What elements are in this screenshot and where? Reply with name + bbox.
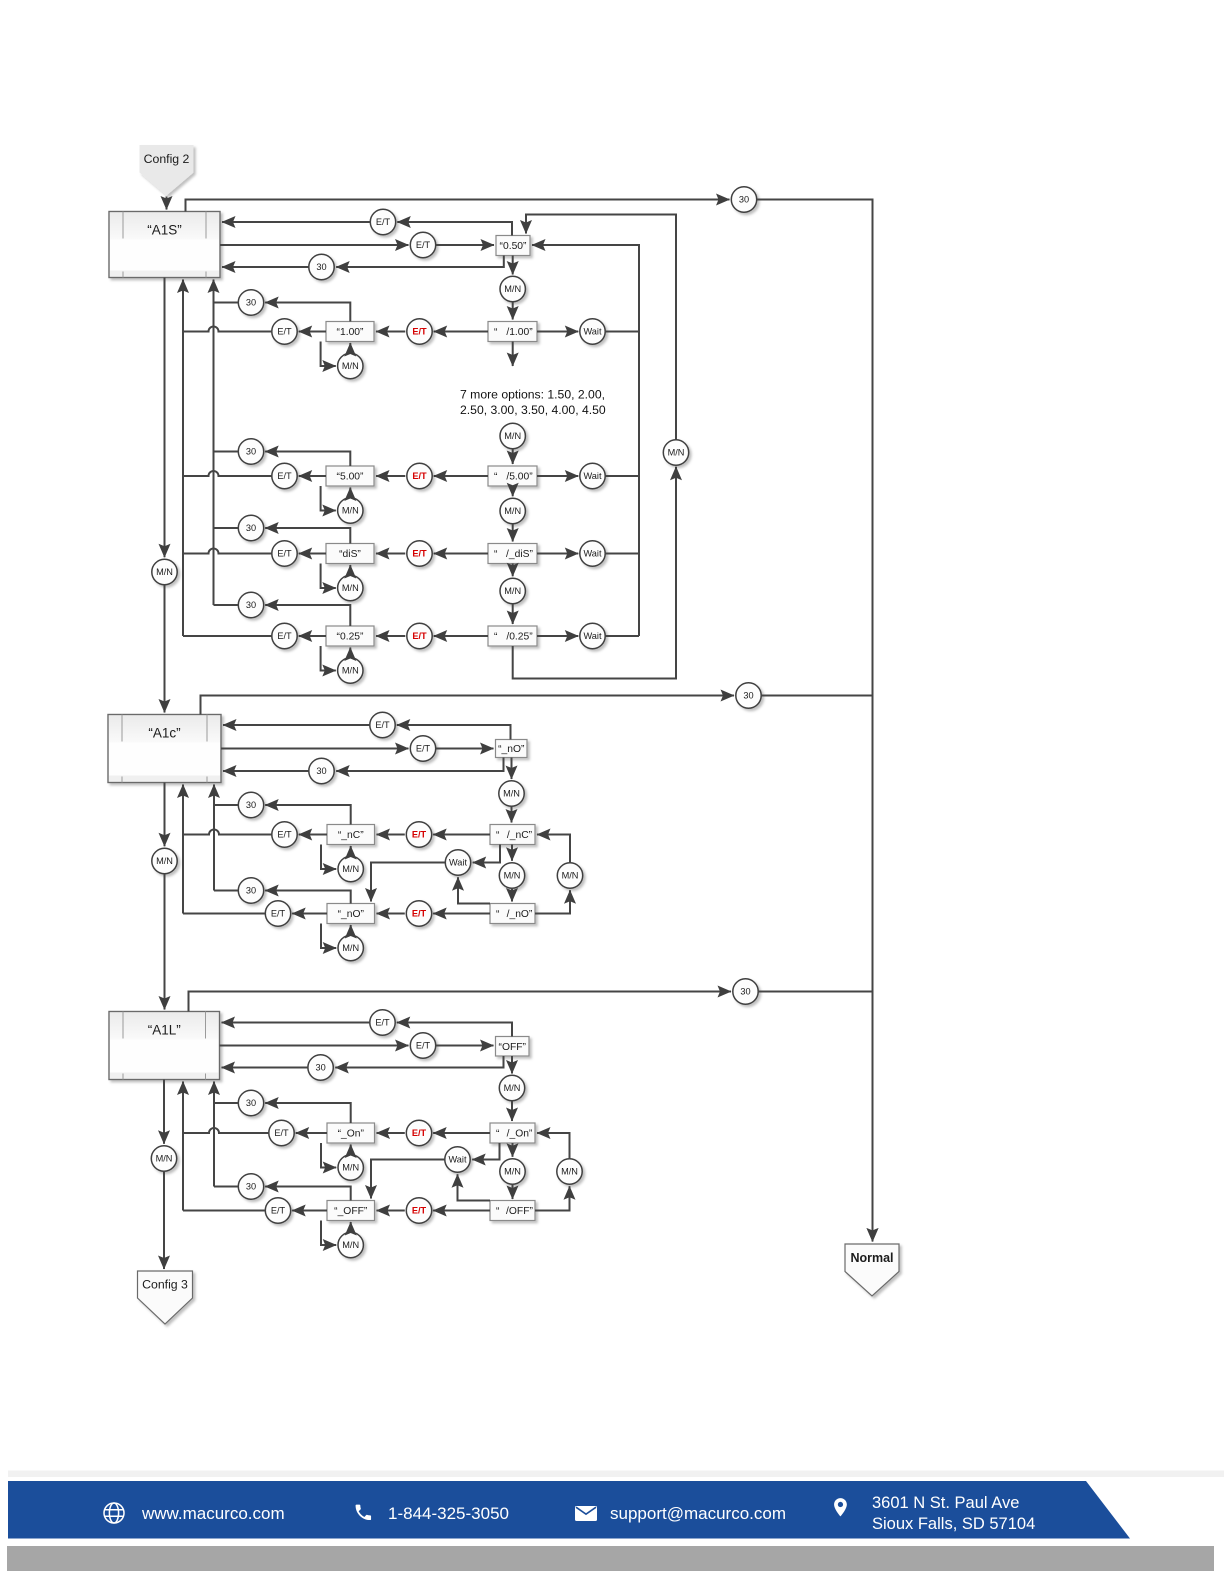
svg-text:30: 30 xyxy=(246,447,256,457)
svg-text:/1.00”: /1.00” xyxy=(506,327,533,338)
wire "1.00" top to 30 xyxy=(265,303,350,322)
circle 30 top xyxy=(731,187,756,212)
circle M/N loop _nC xyxy=(338,856,363,881)
wire "_OFF" loop down xyxy=(321,1221,336,1246)
circle M/N loop 5.00 xyxy=(338,498,363,523)
circle Wait A1c xyxy=(445,850,470,875)
wire " /_On" to red E/T xyxy=(433,1132,490,1134)
wire left M/N down to Config 3 xyxy=(163,1171,165,1269)
circle E/T row2 A1S xyxy=(410,232,435,257)
wire M/N loop into "_On" xyxy=(350,1145,352,1155)
circle 30 _OFF xyxy=(238,1174,263,1199)
wire M/N into " /_diS" xyxy=(512,524,514,542)
svg-text:/5.00”: /5.00” xyxy=(506,472,533,483)
svg-text:E/T: E/T xyxy=(412,830,427,840)
state box "OFF" xyxy=(496,1037,530,1057)
wire "1.00" to E/T xyxy=(299,331,326,333)
svg-text:E/T: E/T xyxy=(412,327,427,337)
circle E/T row1 A1c xyxy=(370,712,395,737)
svg-text:Normal: Normal xyxy=(850,1251,893,1265)
svg-text:E/T: E/T xyxy=(375,720,390,730)
wire " /OFF" top to Wait bottom xyxy=(458,1174,491,1200)
icon globe xyxy=(104,1503,124,1523)
svg-text:30: 30 xyxy=(246,523,256,533)
wire "_OFF" top to 30 xyxy=(265,1187,351,1201)
circle 30 return A1c header xyxy=(309,758,334,783)
wire 30 _OFF to bus xyxy=(214,1186,238,1188)
wire M/N into " /1.00" xyxy=(512,302,514,320)
circle E/T _On xyxy=(269,1120,294,1145)
wire " /0.25" to Wait xyxy=(537,635,578,637)
svg-text:E/T: E/T xyxy=(375,1018,390,1028)
wire M/N loop into "5.00" xyxy=(349,488,351,498)
circle M/N below 0.50 xyxy=(500,276,525,301)
svg-text:“1.00”: “1.00” xyxy=(337,327,364,338)
svg-text:“_nC”: “_nC” xyxy=(338,830,364,841)
svg-text:/_On”: /_On” xyxy=(507,1129,533,1140)
wire red E/T into "0.25" xyxy=(376,635,405,637)
svg-text:M/N: M/N xyxy=(342,506,359,516)
circle E/T red _diS xyxy=(407,541,432,566)
wire "0.50" top to E/T to A1S xyxy=(397,222,512,236)
svg-text:30: 30 xyxy=(315,1063,325,1073)
wire "_nO" to E/T xyxy=(292,913,327,915)
svg-text:30: 30 xyxy=(246,1182,256,1192)
circle E/T row1 A1L xyxy=(370,1010,395,1035)
wire Wait _diS to wait-bus xyxy=(605,553,639,555)
circle E/T diS xyxy=(272,541,297,566)
state box A1L xyxy=(109,1012,220,1080)
svg-text:E/T: E/T xyxy=(274,1128,289,1138)
circle M/N right A1L xyxy=(557,1159,582,1184)
circle E/T red _nO A1c xyxy=(406,901,431,926)
svg-text:Sioux Falls, SD 57104: Sioux Falls, SD 57104 xyxy=(872,1515,1035,1533)
wire wait bus into "0.50" right xyxy=(532,245,639,636)
wire "_nO" loop down xyxy=(321,924,336,949)
wire "0.50" to M/N xyxy=(512,256,514,275)
wire "OFF" bottom-left to 30 row xyxy=(335,1056,503,1068)
svg-text:/_nC”: /_nC” xyxy=(507,830,533,841)
state box "1.00" xyxy=(326,322,374,342)
svg-text:E/T: E/T xyxy=(412,1128,427,1138)
icon map pin xyxy=(834,1498,847,1516)
wire 30 to right bus down to Normal xyxy=(757,200,873,1242)
circle 30 diS xyxy=(238,515,263,540)
wire " /1.00" down arrow xyxy=(512,342,514,367)
svg-text:“5.00”: “5.00” xyxy=(337,472,364,483)
wire M/N loop into "_nO" xyxy=(350,925,352,935)
circle M/N loop diS xyxy=(338,575,363,600)
wire 30 bus up into A1c xyxy=(213,785,215,891)
svg-text:Wait: Wait xyxy=(583,631,601,641)
svg-text:E/T: E/T xyxy=(412,631,427,641)
wire "OFF" to M/N xyxy=(511,1056,513,1074)
circle 30 _nO xyxy=(238,878,263,903)
svg-text:M/N: M/N xyxy=(504,506,521,516)
wire "1.00" loop down xyxy=(321,342,336,367)
svg-text:2.50, 3.00, 3.50, 4.00, 4.50: 2.50, 3.00, 3.50, 4.00, 4.50 xyxy=(460,403,606,417)
svg-text:“0.25”: “0.25” xyxy=(337,632,364,643)
wire red E/T into "_nO" xyxy=(377,913,405,915)
svg-text:Wait: Wait xyxy=(583,327,601,337)
wire "_nO" bottom-left to 30 row xyxy=(336,758,503,772)
circle E/T 5.00 xyxy=(272,463,297,488)
wire " /_nO" top to Wait bottom xyxy=(458,877,490,903)
state box "5.00" xyxy=(326,466,374,486)
circle M/N chain above /0.25 xyxy=(500,578,525,603)
circle E/T red 5.00 xyxy=(407,463,432,488)
svg-text:“: “ xyxy=(496,830,500,841)
svg-text:3601 N St. Paul Ave: 3601 N St. Paul Ave xyxy=(872,1494,1019,1512)
circle Wait 0.25 xyxy=(580,623,605,648)
svg-text:Config 2: Config 2 xyxy=(144,152,190,166)
circle M/N below OFF xyxy=(499,1075,524,1100)
svg-text:E/T: E/T xyxy=(416,744,431,754)
wire E/T bus up into A1c xyxy=(182,785,184,914)
wire "_nO" to M/N xyxy=(511,758,513,780)
svg-text:M/N: M/N xyxy=(342,864,359,874)
wire "_nO" top to E/T to A1c xyxy=(397,725,511,740)
wire "0.25" to E/T xyxy=(299,635,326,637)
wire 30 header into A1L right xyxy=(222,1067,308,1069)
state box A1S xyxy=(109,212,220,278)
display box " _nC" xyxy=(490,825,535,845)
wire "5.00" top to 30 xyxy=(265,452,350,467)
svg-text:E/T: E/T xyxy=(412,1206,427,1216)
icon mail xyxy=(575,1506,597,1521)
wire E/T row1 into A1c right xyxy=(223,724,370,726)
svg-text:“: “ xyxy=(494,472,498,483)
svg-text:M/N: M/N xyxy=(156,567,173,577)
circle E/T row2 A1c xyxy=(410,736,435,761)
svg-text:M/N: M/N xyxy=(342,583,359,593)
wire Wait to "_nO" top xyxy=(371,863,445,902)
svg-text:30: 30 xyxy=(246,600,256,610)
wire M/N loop into "_OFF" xyxy=(350,1222,352,1232)
svg-text:M/N: M/N xyxy=(668,448,685,458)
circle Wait A1L xyxy=(445,1147,470,1172)
state box "diS" xyxy=(326,544,374,564)
svg-text:E/T: E/T xyxy=(277,471,292,481)
svg-text:“OFF”: “OFF” xyxy=(499,1042,527,1053)
wire right M/N into " /_nC" xyxy=(537,835,570,863)
circle M/N left A1S xyxy=(152,559,177,584)
wire " /_nC" to red E/T xyxy=(433,834,490,836)
svg-text:M/N: M/N xyxy=(562,871,579,881)
wire red E/T into "diS" xyxy=(376,553,405,555)
svg-text:E/T: E/T xyxy=(412,909,427,919)
svg-text:“diS”: “diS” xyxy=(339,549,361,560)
wire " /1.00" to Wait xyxy=(537,331,578,333)
display box " _diS" xyxy=(488,544,537,564)
wire left M/N down to A1L xyxy=(164,874,166,1010)
state box "0.50" xyxy=(496,236,530,256)
footer gray bar xyxy=(7,1546,1214,1571)
wire A1S right to E/T row2 xyxy=(220,244,409,246)
wire " /0.25" big loop to right M/N xyxy=(513,467,676,679)
svg-text:Config 3: Config 3 xyxy=(142,1278,188,1292)
wire left M/N down to A1c xyxy=(164,585,166,713)
wire "5.00" to E/T xyxy=(299,475,326,477)
wire A1S bottom to left M/N xyxy=(164,278,166,558)
wire A1L bottom to left M/N xyxy=(163,1080,165,1144)
wire 30 _nC to bus xyxy=(214,804,238,806)
wire red E/T into "_OFF" xyxy=(377,1210,405,1212)
circle E/T red 1.00 xyxy=(407,319,432,344)
wire " /_nO" right to M/N bus xyxy=(535,890,570,913)
svg-text:M/N: M/N xyxy=(342,666,359,676)
svg-text:“_OFF”: “_OFF” xyxy=(334,1206,368,1217)
circle M/N right A1c xyxy=(557,863,582,888)
svg-text:“: “ xyxy=(496,1129,500,1140)
wire E/T diS to return bus xyxy=(183,549,272,554)
icon phone xyxy=(356,1505,371,1520)
state box "_On" xyxy=(327,1123,375,1143)
svg-text:M/N: M/N xyxy=(156,856,173,866)
wire " /_diS" to M/N chain xyxy=(512,564,514,577)
circle Wait 5.00 xyxy=(580,463,605,488)
svg-text:M/N: M/N xyxy=(342,1163,359,1173)
wire E/T row1 into A1S right xyxy=(222,221,370,223)
wire "0.25" loop down xyxy=(321,646,336,671)
wire 30 header into A1c right xyxy=(223,770,309,772)
wire E/T _OFF to return bus xyxy=(183,1210,265,1212)
svg-text:30: 30 xyxy=(316,262,326,272)
circle M/N chain above /5.00 xyxy=(500,423,525,448)
wire E/T row2 into "_nO" left xyxy=(436,748,494,750)
wire " /_diS" to Wait xyxy=(537,553,578,555)
wire " /_nO" to red E/T xyxy=(433,913,490,915)
svg-text:www.macurco.com: www.macurco.com xyxy=(141,1504,285,1523)
circle M/N loop _nO xyxy=(338,935,363,960)
wire 30 diS to bus xyxy=(214,527,239,529)
circle 30 return A1S header xyxy=(309,254,334,279)
state box "_OFF" xyxy=(327,1201,375,1221)
display box " _On" xyxy=(490,1123,535,1143)
wire 30 bus up into A1L xyxy=(213,1082,215,1187)
circle E/T 1.00 xyxy=(272,319,297,344)
wire E/T _On to return bus xyxy=(183,1128,269,1133)
svg-text:30: 30 xyxy=(246,800,256,810)
wire 30 A1c to right bus xyxy=(761,695,872,697)
wire "0.25" top to 30 xyxy=(265,605,350,626)
wire "OFF" top to E/T to A1L xyxy=(397,1023,512,1037)
wire Wait to "_OFF" top xyxy=(371,1160,445,1199)
circle 30 A1L loop xyxy=(733,979,758,1004)
pentagon Config 2 xyxy=(140,145,194,196)
svg-text:M/N: M/N xyxy=(504,871,521,881)
svg-text:M/N: M/N xyxy=(156,1154,173,1164)
svg-text:E/T: E/T xyxy=(412,471,427,481)
svg-text:1-844-325-3050: 1-844-325-3050 xyxy=(388,1504,509,1523)
circle E/T row1 A1S xyxy=(370,209,395,234)
wire Wait 1.00 to wait-bus xyxy=(605,331,639,333)
circle E/T _nC xyxy=(272,822,297,847)
wire 30 _nO to bus xyxy=(214,890,238,892)
wire "_nC" top to 30 xyxy=(265,805,351,825)
wire E/T 5.00 to return bus xyxy=(183,471,272,476)
display box " 1.00" xyxy=(488,322,537,342)
svg-text:M/N: M/N xyxy=(503,789,520,799)
circle E/T _OFF xyxy=(265,1198,290,1223)
wire E/T 1.00 to return bus xyxy=(183,327,272,332)
circle 30 1.00 xyxy=(238,290,263,315)
wire "_OFF" to E/T xyxy=(292,1210,327,1212)
wire 30 bus up into A1S xyxy=(213,280,215,606)
svg-text:30: 30 xyxy=(246,886,256,896)
state box "_nO" top xyxy=(496,740,528,758)
svg-text:“: “ xyxy=(494,327,498,338)
svg-text:30: 30 xyxy=(246,298,256,308)
svg-text:“A1S”: “A1S” xyxy=(147,223,182,238)
svg-text:/_nO”: /_nO” xyxy=(507,909,533,920)
svg-text:M/N: M/N xyxy=(504,1167,521,1177)
circle E/T red _nC A1c xyxy=(406,822,431,847)
wire E/T 0.25 to return bus xyxy=(183,635,272,637)
wire 30 1.00 to bus xyxy=(214,302,239,304)
display box " 5.00" xyxy=(488,466,537,486)
svg-text:M/N: M/N xyxy=(342,1240,359,1250)
circle E/T red _On A1L xyxy=(406,1120,431,1145)
circle E/T row2 A1L xyxy=(410,1033,435,1058)
svg-text:E/T: E/T xyxy=(277,549,292,559)
svg-text:“_nO”: “_nO” xyxy=(498,744,525,755)
wire " /_nC" to M/N chain xyxy=(511,845,513,861)
circle M/N chain A1c xyxy=(499,863,524,888)
wire E/T row2 into "0.50" left xyxy=(436,244,494,246)
wire " /OFF" to red E/T xyxy=(433,1210,490,1212)
wire Wait 0.25 to wait-bus xyxy=(605,635,639,637)
wire A1c right to E/T row2 xyxy=(221,748,409,750)
svg-text:E/T: E/T xyxy=(277,631,292,641)
circle M/N right loop A1S xyxy=(663,440,688,465)
circle M/N loop 0.25 xyxy=(338,658,363,683)
wire red E/T into "_nC" xyxy=(377,834,405,836)
wire red E/T into "1.00" xyxy=(376,331,405,333)
circle 30 _nC xyxy=(238,792,263,817)
circle E/T red 0.25 xyxy=(407,623,432,648)
svg-text:E/T: E/T xyxy=(416,1041,431,1051)
wire " /_nC" bottom to Wait xyxy=(473,845,500,863)
wire M/N loop into "diS" xyxy=(349,565,351,575)
wire 30 5.00 to bus xyxy=(214,451,239,453)
wire "0.50" bottom-left to 30 row xyxy=(336,256,504,268)
circle 30 _On xyxy=(238,1090,263,1115)
wire " /OFF" right to M/N bus xyxy=(535,1186,570,1210)
svg-text:“A1c”: “A1c” xyxy=(148,726,180,741)
svg-text:M/N: M/N xyxy=(504,1083,521,1093)
svg-text:30: 30 xyxy=(316,766,326,776)
pentagon Normal xyxy=(845,1244,899,1296)
wire Config 2 into A1S top xyxy=(166,197,168,210)
svg-text:M/N: M/N xyxy=(504,586,521,596)
circle M/N loop _OFF xyxy=(338,1232,363,1257)
wire M/N into " /0.25" xyxy=(512,604,514,624)
svg-text:E/T: E/T xyxy=(277,327,292,337)
svg-text:M/N: M/N xyxy=(342,361,359,371)
display box " 0.25" xyxy=(488,626,537,646)
circle 30 5.00 xyxy=(238,439,263,464)
circle 30 return A1L header xyxy=(308,1055,333,1080)
svg-text:“_nO”: “_nO” xyxy=(338,909,365,920)
circle Wait 1.00 xyxy=(580,319,605,344)
svg-text:“: “ xyxy=(494,632,498,643)
wire M/N into " /_On" xyxy=(511,1101,513,1121)
svg-text:E/T: E/T xyxy=(376,217,391,227)
wire M/N chain into " /OFF" xyxy=(512,1184,514,1199)
wire 30 header into A1S right xyxy=(222,266,309,268)
wire E/T row2 into "OFF" left xyxy=(436,1045,494,1047)
wire "diS" loop down xyxy=(321,564,336,589)
svg-text:E/T: E/T xyxy=(416,240,431,250)
wire "diS" to E/T xyxy=(299,553,326,555)
state box "_nO" xyxy=(327,904,375,924)
svg-text:Wait: Wait xyxy=(449,858,467,868)
circle Wait _diS xyxy=(580,541,605,566)
wire E/T row1 into A1L right xyxy=(222,1022,370,1024)
circle M/N chain A1L xyxy=(500,1159,525,1184)
svg-text:E/T: E/T xyxy=(412,549,427,559)
wire "_On" loop down xyxy=(321,1143,336,1168)
wire " /5.00" to red E/T xyxy=(434,475,488,477)
wire " /1.00" to red E/T xyxy=(434,331,488,333)
svg-text:“_On”: “_On” xyxy=(338,1129,365,1140)
circle E/T _nO xyxy=(265,901,290,926)
circle E/T 0.25 xyxy=(272,623,297,648)
svg-text:E/T: E/T xyxy=(271,909,286,919)
circle M/N below _nO xyxy=(499,781,524,806)
svg-text:“A1L”: “A1L” xyxy=(148,1023,181,1038)
wire " /0.25" to red E/T xyxy=(434,635,488,637)
svg-text:/_diS”: /_diS” xyxy=(506,549,533,560)
circle M/N chain above /_diS xyxy=(500,498,525,523)
display box " _nO" xyxy=(490,904,535,924)
circle M/N loop _On xyxy=(338,1155,363,1180)
state box "_nC" xyxy=(327,825,375,845)
display box " OFF" xyxy=(490,1201,535,1221)
svg-text:M/N: M/N xyxy=(561,1167,578,1177)
footer light strip xyxy=(8,1471,1224,1478)
svg-text:“: “ xyxy=(494,549,498,560)
svg-text:support@macurco.com: support@macurco.com xyxy=(610,1504,786,1523)
svg-text:/0.25”: /0.25” xyxy=(506,632,533,643)
svg-text:30: 30 xyxy=(740,987,750,997)
wire E/T _nC to return bus xyxy=(183,830,272,835)
wire M/N into " /_nC" xyxy=(511,806,513,822)
svg-text:“: “ xyxy=(496,909,500,920)
svg-text:Wait: Wait xyxy=(583,471,601,481)
circle 30 0.25 xyxy=(238,592,263,617)
wire E/T bus up into A1L xyxy=(182,1082,184,1211)
circle M/N left A1L xyxy=(151,1146,176,1171)
circle 30 A1c loop xyxy=(736,683,761,708)
wire A1L right to E/T row2 xyxy=(220,1045,409,1047)
svg-text:Wait: Wait xyxy=(583,549,601,559)
wire 30 0.25 to bus xyxy=(214,604,239,606)
wire 30 _On to bus xyxy=(214,1102,238,1104)
wire M/N chain into " /_nO" xyxy=(511,888,513,901)
circle M/N loop 1.00 xyxy=(338,353,363,378)
state box A1c xyxy=(108,715,221,783)
wire A1S top to 30 loop xyxy=(186,200,730,212)
svg-text:M/N: M/N xyxy=(504,284,521,294)
wire "_On" to E/T xyxy=(296,1132,327,1134)
wire "_nC" to E/T xyxy=(299,834,327,836)
wire right M/N up and into "0.50" top xyxy=(526,215,676,440)
wire E/T bus up into A1S xyxy=(182,280,184,637)
svg-text:30: 30 xyxy=(739,195,749,205)
wire "_nC" loop down xyxy=(321,845,336,870)
